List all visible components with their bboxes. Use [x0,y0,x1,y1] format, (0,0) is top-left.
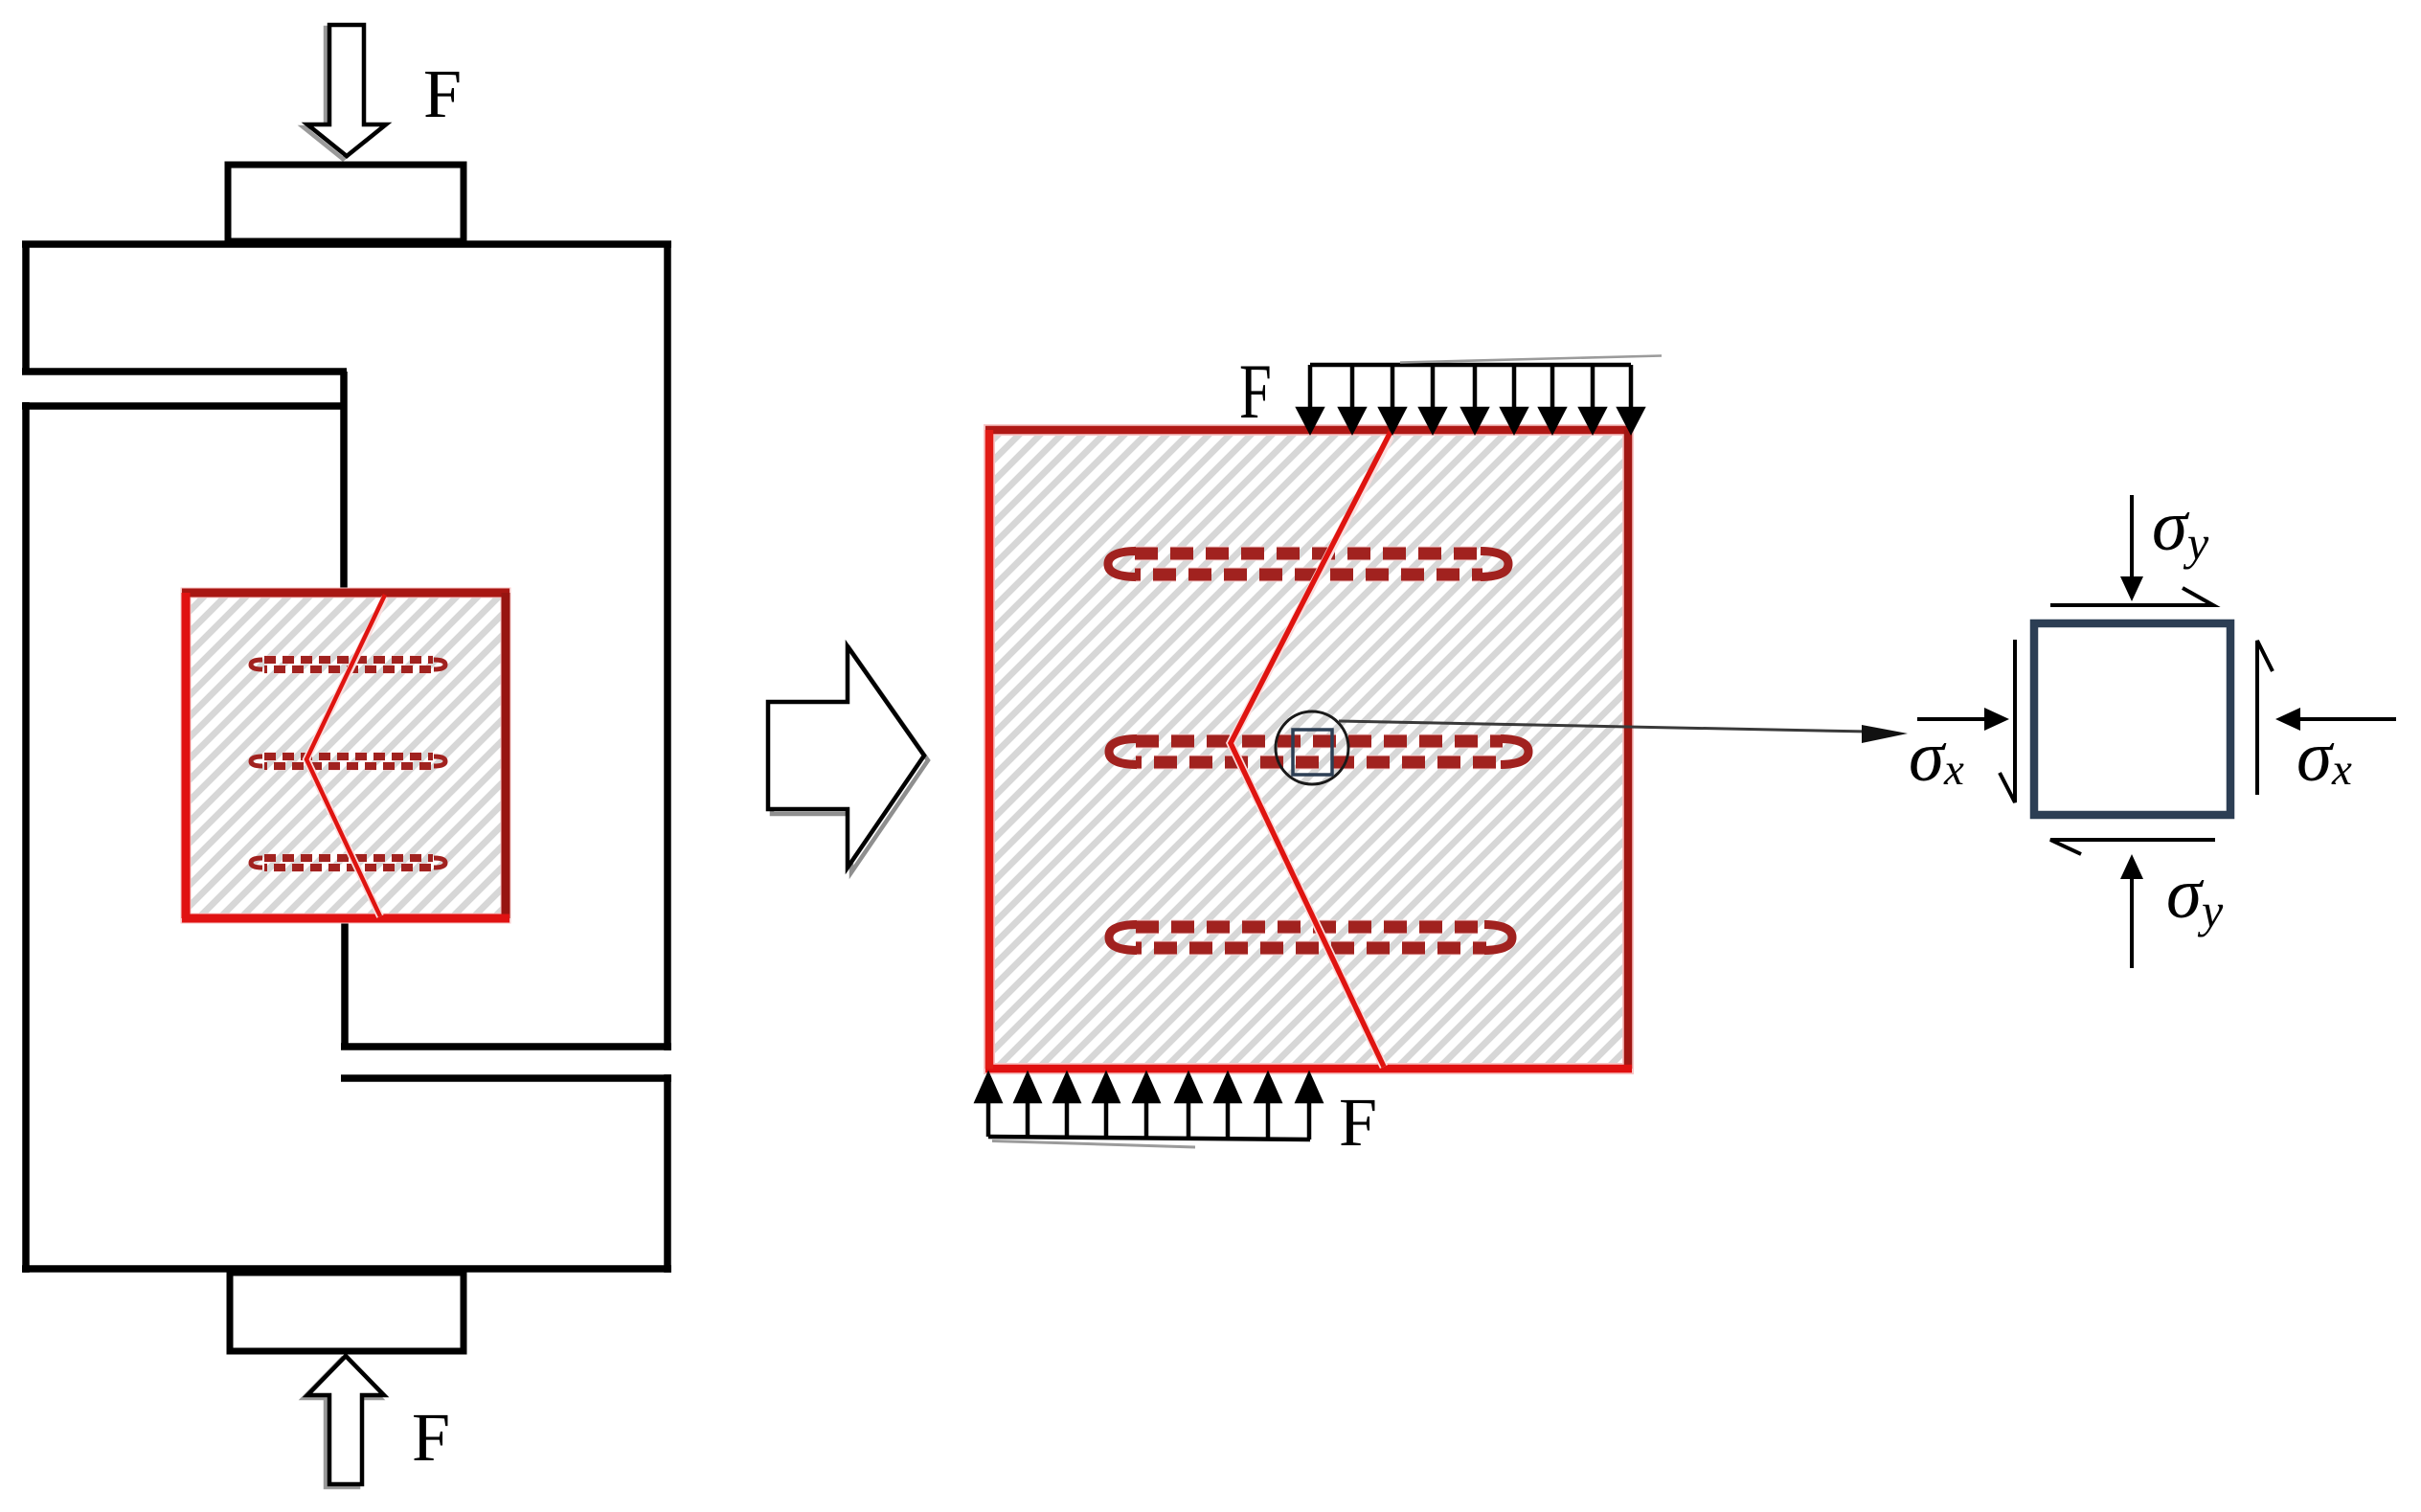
right wall (lower segment) [664,1074,671,1273]
specimen left: top edge [182,589,509,598]
bottom load bracket gray streak [992,1141,1195,1148]
specimen middle border glow [989,430,1628,1069]
specimen middle: top edge [985,426,1632,435]
top load bracket gray streak [1400,356,1662,363]
upper frame: top bar top edge [22,240,671,248]
upper platen [228,165,464,241]
process zone row 2 (left specimen) [251,756,445,766]
stress element marker (small navy square) [1293,730,1332,775]
upper loading column [340,372,348,594]
specimen middle: left edge [985,430,994,1069]
svg-text:F: F [423,56,462,132]
svg-text:F: F [1239,348,1272,435]
specimen (left, hatched) [190,597,502,914]
top distributed load arrows [1299,365,1642,431]
left shear harpoon [2000,640,2015,802]
sigma-y top arrow [2120,495,2143,601]
top shear harpoon [2050,588,2213,605]
lower frame: top edge (slot bottom) [22,402,341,410]
specimen left: bottom edge [182,914,509,923]
inner arm line (lower) [341,1074,671,1082]
inspection circle [1276,711,1348,784]
process zone row 1 (left specimen) [251,660,445,669]
lower frame: left wall [22,402,30,1273]
right shear harpoon [2257,641,2273,795]
stress element square [2034,623,2230,815]
process zone row 1 (middle) [1108,552,1508,577]
force arrow F top (hollow down arrow) [304,25,386,159]
process zone row 3 (middle) [1109,925,1512,951]
leader line to stress element [1339,721,1869,732]
sigma-x right arrow [2275,708,2396,731]
specimen (middle, hatched) [993,434,1624,1065]
svg-text:F: F [1339,1084,1377,1161]
leader arrowhead [1862,725,1908,743]
upper frame: top bar left edge [22,241,30,374]
lower platen [230,1273,464,1351]
lower loading column [341,916,349,1047]
force arrow F bottom (hollow up arrow) [304,1356,384,1487]
sigma-x left arrow [1917,708,2009,731]
svg-text:F: F [412,1399,450,1476]
inner arm line (upper) [341,1043,671,1050]
crack (middle specimen) [1231,432,1391,1067]
bottom distributed load arrows [977,1075,1321,1140]
top load bracket line [1310,363,1631,368]
specimen left: right edge [502,593,510,918]
bottom bar [22,1265,671,1273]
sigma-y bottom arrow [2120,854,2143,968]
right wall (upper segment) [664,241,671,1050]
upper frame: top bar bottom edge (slot top) [22,368,347,375]
bottom shear harpoon [2050,840,2215,854]
specimen left border glow [186,593,506,918]
specimen left: left edge [182,593,191,918]
specimen middle: right edge [1624,430,1633,1069]
process zone row 2 (middle) [1109,739,1528,765]
process zone row 3 (left specimen) [251,858,445,868]
crack (left specimen) [306,595,385,916]
block arrow shadow [772,651,928,872]
block arrow [768,646,924,868]
bottom load bracket line [988,1137,1310,1140]
specimen middle: bottom edge [985,1065,1632,1073]
